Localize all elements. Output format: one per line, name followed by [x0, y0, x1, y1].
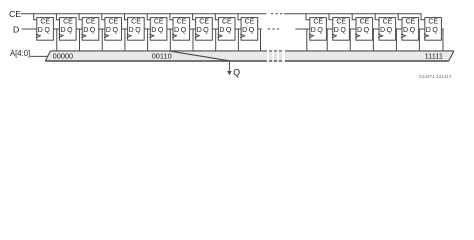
- svg-text:CE: CE: [245, 19, 255, 26]
- svg-text:D: D: [334, 27, 339, 34]
- flip-flop FF0: [34, 13, 54, 40]
- svg-text:CE: CE: [313, 19, 323, 26]
- svg-text:Q: Q: [203, 27, 209, 34]
- svg-text:D: D: [197, 27, 202, 34]
- flip-flop FF3: [102, 13, 122, 40]
- flip-flop FF29: [375, 13, 395, 40]
- CE net break dots: [271, 13, 282, 14]
- svg-text:X14471-121417: X14471-121417: [419, 74, 452, 79]
- wire Q tap 26 down to mux: [326, 29, 328, 51]
- wire Q tap 2 down to mux: [101, 29, 103, 51]
- svg-text:Q: Q: [90, 27, 96, 34]
- wire Q tap 31 down to mux: [442, 29, 444, 51]
- wire Q of FF31 to last tap: [441, 28, 443, 30]
- wire CE net right segment: [284, 13, 422, 15]
- flip-flop FF7: [193, 13, 213, 40]
- wire Q of FF1 to D of FF2: [76, 28, 82, 30]
- svg-text:CE: CE: [9, 9, 21, 19]
- wire Q of FF26 to D of FF27: [326, 28, 332, 30]
- svg-text:D: D: [13, 25, 19, 35]
- svg-text:00000: 00000: [53, 51, 74, 60]
- wire A[4:0] to mux select: [30, 55, 47, 57]
- svg-text:D: D: [242, 27, 247, 34]
- svg-text:Q: Q: [181, 27, 187, 34]
- svg-text:D: D: [151, 27, 156, 34]
- svg-text:CE: CE: [336, 19, 346, 26]
- svg-text:Q: Q: [387, 27, 393, 34]
- mux M1 32:1 bus left segment: [45, 51, 267, 61]
- flip-flop FF30: [398, 13, 418, 40]
- svg-text:CE: CE: [428, 19, 438, 26]
- wire D input to FF0: [22, 28, 37, 30]
- svg-text:D: D: [426, 27, 431, 34]
- wire Q of FF2 to D of FF3: [99, 28, 105, 30]
- svg-text:00110: 00110: [152, 51, 172, 60]
- wire Q of FF3 to D of FF4: [122, 28, 128, 30]
- wire Q tap 29 down to mux: [395, 29, 397, 51]
- svg-text:CE: CE: [63, 19, 73, 26]
- flip-flop FF26: [306, 13, 326, 40]
- wire Q of FF8 to D of FF9: [235, 28, 241, 30]
- flip-flop FF4: [125, 13, 145, 40]
- svg-text:Q: Q: [158, 27, 164, 34]
- wire Q of FF7 to D of FF8: [212, 28, 218, 30]
- wire Q tap 30 down to mux: [418, 29, 420, 51]
- wire Q tap 9 down to mux: [260, 29, 262, 51]
- wire Q of FF4 to D of FF5: [144, 28, 150, 30]
- wire Q of FF27 to D of FF28: [349, 28, 356, 30]
- wire Q tap 3 down to mux: [124, 29, 126, 51]
- svg-text:D: D: [403, 27, 408, 34]
- wire selected tap 00110 diagonal path: [170, 51, 229, 61]
- flip-flop FF1: [56, 13, 76, 40]
- svg-text:D: D: [311, 27, 316, 34]
- wire Q tap 6 down to mux: [192, 29, 194, 51]
- wire Q of FF0 to D of FF1: [53, 28, 59, 30]
- svg-text:CE: CE: [406, 19, 416, 26]
- svg-text:Q: Q: [432, 27, 438, 34]
- svg-text:Q: Q: [410, 27, 416, 34]
- svg-text:CE: CE: [222, 19, 232, 26]
- wire Q of FF5 to D of FF6: [167, 28, 173, 30]
- wire Q tap 5 down to mux: [169, 29, 171, 51]
- Q output arrow: [227, 61, 232, 75]
- svg-text:D: D: [219, 27, 224, 34]
- wire Q tap 27 down to mux: [349, 29, 351, 51]
- svg-text:D: D: [357, 27, 362, 34]
- flip-flop FF2: [79, 13, 99, 40]
- svg-text:Q: Q: [340, 27, 346, 34]
- svg-text:CE: CE: [86, 19, 96, 26]
- flip-flop FF6: [170, 13, 190, 40]
- mux M1 bus right segment: [285, 51, 454, 61]
- wire Q of FF28 to D of FF29: [373, 28, 379, 30]
- D chain break dots: [268, 28, 279, 29]
- svg-text:D: D: [106, 27, 111, 34]
- flip-flop FF31: [421, 13, 441, 40]
- wire Q tap 1 down to mux: [79, 29, 81, 51]
- svg-text:D: D: [61, 27, 66, 34]
- svg-text:CE: CE: [108, 19, 118, 26]
- svg-text:CE: CE: [177, 19, 187, 26]
- svg-text:Q: Q: [364, 27, 370, 34]
- svg-text:CE: CE: [383, 19, 393, 26]
- wire Q of FF30 to D of FF31: [419, 28, 425, 30]
- wire Q tap 28 down to mux: [372, 29, 374, 51]
- wire Q tap 4 down to mux: [147, 29, 149, 51]
- flip-flop FF9: [238, 13, 258, 40]
- svg-text:D: D: [83, 27, 88, 34]
- svg-text:CE: CE: [40, 19, 50, 26]
- wire CE net left segment: [21, 13, 267, 15]
- wire Q tap 0 down to mux: [56, 29, 58, 51]
- svg-text:D: D: [129, 27, 134, 34]
- flip-flop FF28: [352, 13, 372, 40]
- svg-text:Q: Q: [249, 27, 255, 34]
- wire Q of FF9 stub at figure break: [258, 28, 262, 30]
- mux bus break dashes: [269, 51, 282, 61]
- wire Q tap 7 down to mux: [215, 29, 217, 51]
- svg-text:A[4:0]: A[4:0]: [10, 48, 30, 58]
- wire Q of FF6 to D of FF7: [190, 28, 196, 30]
- svg-text:D: D: [380, 27, 385, 34]
- wire D chain resuming into FF26: [295, 28, 309, 30]
- wire Q tap 8 down to mux: [237, 29, 239, 51]
- svg-text:D: D: [174, 27, 179, 34]
- svg-text:11111: 11111: [425, 51, 443, 60]
- svg-text:D: D: [38, 27, 43, 34]
- svg-text:CE: CE: [154, 19, 164, 26]
- svg-text:Q: Q: [317, 27, 323, 34]
- svg-text:Q: Q: [44, 27, 50, 34]
- svg-text:Q: Q: [67, 27, 73, 34]
- flip-flop FF27: [329, 13, 349, 40]
- svg-text:Q: Q: [233, 67, 240, 77]
- svg-text:CE: CE: [360, 19, 370, 26]
- svg-text:CE: CE: [131, 19, 141, 26]
- wire Q of FF29 to D of FF30: [396, 28, 402, 30]
- svg-text:Q: Q: [226, 27, 232, 34]
- svg-text:Q: Q: [135, 27, 141, 34]
- svg-text:CE: CE: [199, 19, 209, 26]
- flip-flop FF8: [215, 13, 235, 40]
- svg-text:Q: Q: [113, 27, 119, 34]
- flip-flop FF5: [147, 13, 167, 40]
- wire Q tap of hidden FF25 down to mux: [306, 29, 308, 51]
